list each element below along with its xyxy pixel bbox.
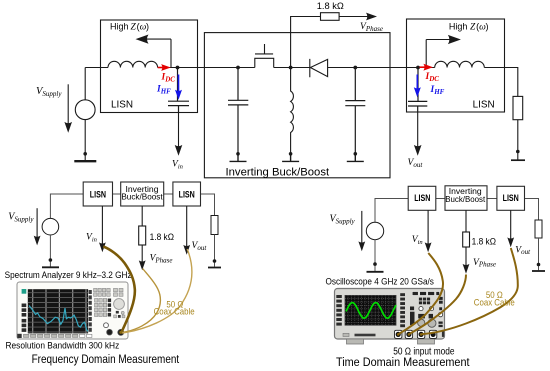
scope keypad cluster <box>410 297 443 327</box>
ground (time supply) <box>367 271 384 273</box>
resistor terminator (freq) <box>211 216 218 235</box>
scope feet <box>347 339 364 344</box>
ground (time terminator) <box>532 270 545 272</box>
wire supply to ground (freq) <box>49 235 51 267</box>
analyzer screen h-grid <box>28 293 88 332</box>
arrow V_Phase (freq) <box>139 245 146 270</box>
wire R_load to ground <box>517 120 519 160</box>
node LISN right input <box>416 66 420 70</box>
arrow V_Phase (time) <box>463 247 470 274</box>
svg-text:Z: Z <box>470 22 476 32</box>
scope bar under screen <box>355 334 376 337</box>
wire LISN right to load resistor <box>484 68 518 97</box>
node supply ground (freq) <box>49 258 53 262</box>
node supply ground (time) <box>373 262 377 266</box>
spectrum analyzer instrument <box>17 282 128 339</box>
analyzer left buttons <box>22 304 27 332</box>
node C_out ground junction <box>354 152 358 156</box>
scope body <box>335 289 445 340</box>
arrow V_out (freq) <box>183 206 190 255</box>
cable plug dots (time) <box>397 333 400 336</box>
ground (C_in) <box>230 154 247 162</box>
node supply-ground junction <box>83 152 87 156</box>
converter box (freq) <box>121 182 164 206</box>
capacitor LISN right <box>408 68 427 113</box>
svg-text:LISN: LISN <box>90 188 106 199</box>
wire supply to LISN1 (freq) <box>50 194 83 218</box>
wire node to inductor right <box>418 67 435 69</box>
arrow V_Phase <box>366 13 377 21</box>
wire LISN1 to converter (time) <box>436 198 445 200</box>
wire supply to ground (time) <box>374 240 376 271</box>
inductor LISN left <box>108 61 158 67</box>
source V_Supply circle (freq) <box>42 218 59 235</box>
analyzer screen v-grid <box>33 289 86 333</box>
arrow I_DC left (red) <box>158 64 171 71</box>
analyzer input connector 1 <box>107 329 113 335</box>
svg-text:LISN: LISN <box>503 192 519 203</box>
arrow V_in (top) <box>175 145 183 156</box>
scope left buttons <box>336 295 342 326</box>
LISN box left <box>101 20 198 113</box>
converter box (Inverting Buck/Boost) <box>204 33 390 178</box>
analyzer trace <box>29 306 88 332</box>
resistor 1.8k (time) <box>463 232 470 247</box>
ground (L1) <box>282 154 299 162</box>
converter box (time) <box>445 186 487 211</box>
svg-text:Spectrum Analyzer 9 kHz–3.2 GH: Spectrum Analyzer 9 kHz–3.2 GHz <box>5 270 132 280</box>
scope sine trace <box>346 303 396 319</box>
svg-text:Oscilloscope 4 GHz 20 GSa/s: Oscilloscope 4 GHz 20 GSa/s <box>326 276 434 286</box>
analyzer screen <box>28 289 88 333</box>
ground (supply) <box>74 160 96 162</box>
arrow V_out (time) <box>507 210 514 247</box>
high-Z arrow right (pointing right) <box>426 40 451 68</box>
node phase <box>289 66 293 70</box>
scope BNC inputs <box>395 330 437 338</box>
analyzer softkeys <box>89 290 92 332</box>
scope screen grid <box>345 295 396 325</box>
node L1 ground junction <box>289 152 293 156</box>
wire inductor to node <box>158 67 178 69</box>
svg-text:High: High <box>449 21 468 31</box>
wire supply vertical <box>84 68 86 161</box>
arrow V_Supply (freq) <box>34 208 41 245</box>
coax cable V_Phase to scope (time) <box>409 275 466 335</box>
svg-text:Resolution Bandwidth 300 kHz: Resolution Bandwidth 300 kHz <box>6 340 120 351</box>
wire converter to 1.8k (freq) <box>141 206 143 226</box>
svg-text:): ) <box>486 21 489 31</box>
svg-text:LISN: LISN <box>473 99 495 110</box>
node R_load ground junction <box>516 150 520 154</box>
svg-text:Coax Cable: Coax Cable <box>474 297 515 308</box>
analyzer input connector 2 <box>118 329 124 335</box>
transistor Q1 (MOSFET) <box>255 44 274 68</box>
coax cable V_out to analyzer (freq) <box>122 249 192 333</box>
analyzer ring button <box>104 323 109 328</box>
scope ring buttons <box>419 307 423 311</box>
wire supply to LISN1 (time) <box>375 199 408 223</box>
svg-text:Buck/Boost: Buck/Boost <box>445 195 486 204</box>
wire terminator to ground (freq) <box>214 235 216 267</box>
wire V_in drop <box>178 113 180 148</box>
svg-text:Time Domain Measurement: Time Domain Measurement <box>336 356 470 369</box>
svg-text:LISN: LISN <box>414 192 430 203</box>
scope right bar <box>442 331 444 337</box>
wire LISN2 to terminator (time) <box>525 199 539 221</box>
svg-text:Frequency Domain Measurement: Frequency Domain Measurement <box>32 353 180 366</box>
cable plug dot (freq) <box>119 331 122 334</box>
resistor terminator (time) <box>535 220 542 238</box>
svg-text:50 Ω input mode: 50 Ω input mode <box>393 346 454 357</box>
diode D1 <box>310 59 328 77</box>
ground (C_out) <box>347 154 364 162</box>
arrow V_Supply (top) <box>64 84 72 133</box>
analyzer bottom row keys <box>24 334 78 337</box>
analyzer keypad <box>94 288 123 316</box>
ground (freq supply) <box>42 266 59 268</box>
scope top row buttons <box>412 292 439 296</box>
wire resistor to V_Phase arrow <box>339 16 368 18</box>
arrow I_HF left (blue) <box>175 75 182 100</box>
svg-text:1.8 kΩ: 1.8 kΩ <box>317 1 344 11</box>
arrow V_in (freq) <box>99 206 106 252</box>
wire converter to 1.8k (time) <box>465 210 467 232</box>
capacitor C_out <box>345 68 365 154</box>
arrow I_HF right (blue) <box>414 75 421 98</box>
wire converter to LISN2 (freq) <box>164 193 173 195</box>
inductor L1 (vertical) <box>291 68 294 154</box>
coax cable V_in to analyzer (freq) <box>103 247 135 332</box>
resistor 1.8k (freq) <box>139 226 146 245</box>
coax cable V_Phase to analyzer (freq) <box>122 269 160 333</box>
capacitor LISN left <box>168 68 189 113</box>
scope mid column buttons <box>400 293 405 327</box>
wire supply to LISN input <box>85 67 108 69</box>
wire Q1 to phase node <box>274 67 310 69</box>
scope knobs <box>418 319 425 326</box>
svg-text:Buck/Boost: Buck/Boost <box>121 191 163 201</box>
wire LISN2 to terminator (freq) <box>201 194 215 216</box>
LISN2 box (time) <box>497 186 525 210</box>
coax cable V_out to scope (time) <box>421 248 518 334</box>
oscilloscope instrument <box>335 289 445 345</box>
wire diode to output node <box>328 67 356 69</box>
source V_Supply circle (time) <box>366 222 383 239</box>
svg-text:1.8 kΩ: 1.8 kΩ <box>472 236 497 247</box>
resistor R_load <box>513 96 523 119</box>
arrow V_Supply (time) <box>358 211 365 251</box>
scope screen <box>345 295 396 325</box>
LISN1 box (freq) <box>83 182 112 206</box>
svg-text:Inverting Buck/Boost: Inverting Buck/Boost <box>226 166 330 178</box>
node converter output <box>353 66 357 70</box>
wire converter to LISN2 (time) <box>487 198 497 200</box>
svg-text:1.8 kΩ: 1.8 kΩ <box>150 231 175 242</box>
wire converter to LISN right <box>355 67 418 69</box>
ground (R_load) <box>511 159 525 161</box>
analyzer teal button <box>22 289 27 294</box>
wire phase riser to 1.8k <box>291 17 321 68</box>
inductor LISN right <box>435 61 485 67</box>
analyzer knob <box>114 299 125 310</box>
capacitor C_in <box>228 68 248 154</box>
node terminator ground (time) <box>537 263 541 267</box>
svg-text:High: High <box>110 21 129 31</box>
high-Z arrow left (pointing left) <box>146 39 171 67</box>
source V_Supply circle <box>75 100 95 120</box>
arrow V_in (time) <box>425 210 432 252</box>
coax cable V_in to scope (time) <box>398 253 443 334</box>
LISN box right <box>407 19 505 112</box>
svg-text:LISN: LISN <box>111 99 133 110</box>
resistor 1.8k (top) <box>321 13 340 21</box>
wire V_out drop <box>417 112 419 148</box>
node A (LISN left output) <box>176 66 180 70</box>
node terminator ground (freq) <box>213 259 217 263</box>
LISN2 box (freq) <box>173 182 201 206</box>
scope bottom-left button <box>343 333 349 336</box>
analyzer body <box>17 282 128 339</box>
arrow V_out (top) <box>414 145 422 156</box>
svg-text:Z: Z <box>131 22 137 32</box>
wire terminator to ground (time) <box>538 238 540 270</box>
wire LISN left to converter <box>178 67 255 69</box>
arrow I_DC right (red) <box>420 64 434 71</box>
node converter input <box>236 66 240 70</box>
svg-text:LISN: LISN <box>179 188 195 199</box>
analyzer small keys below knob <box>116 311 119 314</box>
svg-text:): ) <box>146 21 149 31</box>
LISN1 box (time) <box>408 186 436 210</box>
node C_in ground junction <box>236 152 240 156</box>
ground (freq terminator) <box>208 267 221 269</box>
wire LISN1 to converter (freq) <box>113 193 121 195</box>
svg-text:Coax Cable: Coax Cable <box>154 306 195 317</box>
